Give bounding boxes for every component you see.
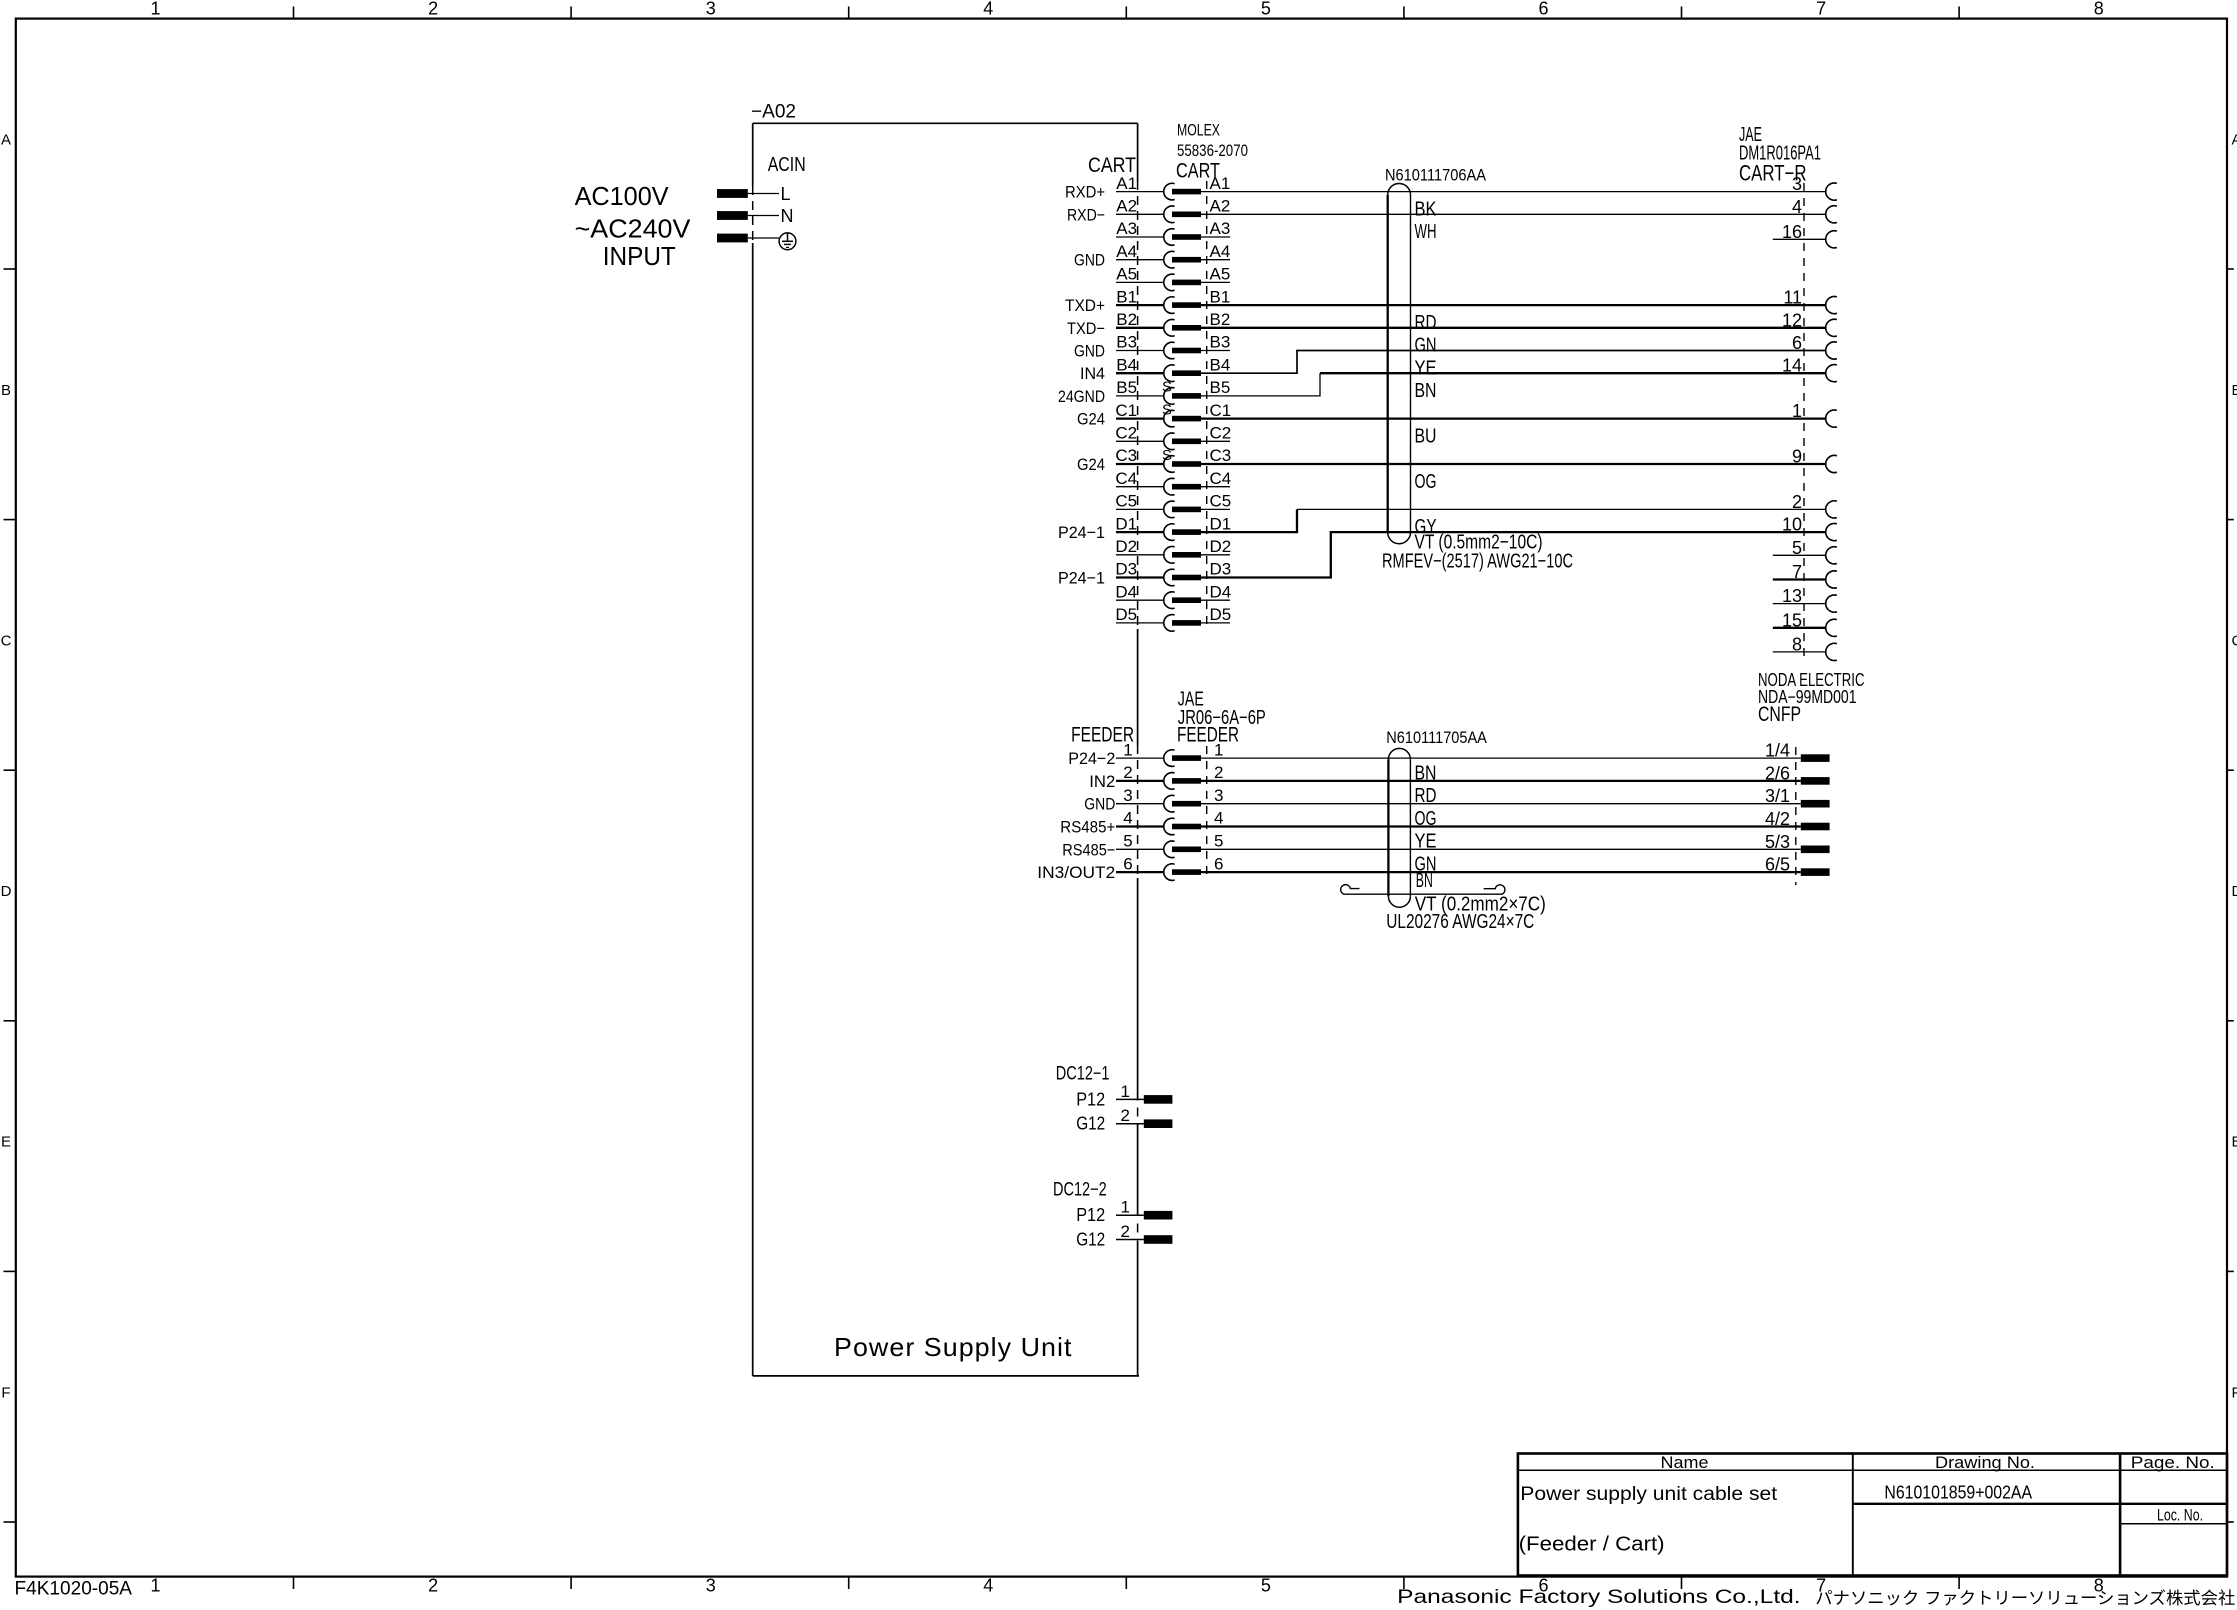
svg-text:4/2: 4/2 bbox=[1765, 809, 1790, 829]
svg-text:1: 1 bbox=[1123, 740, 1132, 759]
svg-text:2: 2 bbox=[1123, 763, 1132, 782]
CART-R pin 7 bbox=[1773, 562, 1837, 588]
wire FEEDER 6 to CNFP bbox=[1201, 871, 1801, 873]
CART pin B3 terminal bbox=[1116, 333, 1230, 359]
CART pin A5 terminal bbox=[1116, 265, 1230, 291]
power supply unit box -A02 bbox=[753, 123, 1139, 1376]
CART pin C4 terminal bbox=[1115, 469, 1231, 495]
svg-text:C1: C1 bbox=[1210, 401, 1232, 420]
svg-text:F: F bbox=[2232, 1384, 2237, 1401]
svg-text:CNFP: CNFP bbox=[1758, 703, 1801, 726]
svg-text:B2: B2 bbox=[1210, 310, 1231, 329]
svg-text:RXD+: RXD+ bbox=[1065, 183, 1105, 202]
wire FEEDER 4 to CNFP bbox=[1201, 825, 1801, 827]
wire stub CART pin C2 bbox=[1201, 440, 1230, 442]
svg-text:6/5: 6/5 bbox=[1765, 855, 1790, 875]
svg-text:A: A bbox=[1, 131, 11, 148]
wire stub CART pin B3 bbox=[1201, 350, 1230, 352]
svg-text:IN3/OUT2: IN3/OUT2 bbox=[1037, 863, 1115, 882]
svg-text:D: D bbox=[2232, 883, 2237, 900]
svg-text:1: 1 bbox=[150, 0, 160, 19]
CART-R pin 4 bbox=[1792, 197, 1837, 223]
svg-text:S: S bbox=[1162, 447, 1172, 464]
wire stub CART pin A4 bbox=[1201, 259, 1230, 261]
svg-text:5: 5 bbox=[1123, 832, 1132, 851]
connector DC12−2 bbox=[1053, 1180, 1107, 1201]
connector CNFP (NODA ELECTRIC NDA-99MD001) header bbox=[1758, 670, 1865, 726]
wire FEEDER 3 to CNFP bbox=[1201, 803, 1801, 805]
CART-R pin 14 bbox=[1782, 356, 1837, 382]
svg-text:2: 2 bbox=[428, 0, 438, 19]
svg-text:G24: G24 bbox=[1077, 455, 1105, 474]
svg-text:G12: G12 bbox=[1076, 1230, 1105, 1250]
svg-text:D5: D5 bbox=[1115, 605, 1137, 624]
svg-text:2: 2 bbox=[1121, 1106, 1130, 1125]
svg-text:TXD−: TXD− bbox=[1067, 319, 1105, 338]
svg-text:UL20276 AWG24×7C: UL20276 AWG24×7C bbox=[1386, 911, 1534, 933]
svg-text:A2: A2 bbox=[1210, 197, 1231, 216]
svg-text:C3: C3 bbox=[1115, 446, 1137, 465]
svg-text:−A02: −A02 bbox=[751, 102, 796, 123]
svg-text:OG: OG bbox=[1415, 471, 1437, 493]
svg-text:C1: C1 bbox=[1115, 401, 1137, 420]
svg-text:RD: RD bbox=[1415, 312, 1437, 334]
svg-text:11: 11 bbox=[1783, 288, 1802, 308]
svg-text:~AC240V: ~AC240V bbox=[575, 213, 691, 243]
svg-text:RXD−: RXD− bbox=[1067, 205, 1105, 224]
CART pin C1 terminal bbox=[1115, 401, 1231, 427]
svg-text:BN: BN bbox=[1415, 762, 1437, 784]
CART pin D3 terminal bbox=[1115, 560, 1231, 586]
wire C1 to CART-R pin 1 (BU) bbox=[1201, 417, 1826, 419]
FEEDER pin 4 terminal bbox=[1116, 809, 1223, 835]
svg-text:1: 1 bbox=[1792, 401, 1802, 421]
CART pin A2 terminal bbox=[1116, 197, 1230, 223]
svg-text:IN2: IN2 bbox=[1089, 772, 1115, 791]
CART pin B2 terminal bbox=[1116, 310, 1230, 336]
CART pin D1 terminal bbox=[1115, 514, 1231, 540]
svg-text:IN4: IN4 bbox=[1080, 364, 1105, 383]
FEEDER pin 3 terminal bbox=[1116, 786, 1223, 812]
AC input label AC100V ~AC240V INPUT bbox=[575, 181, 691, 271]
svg-text:14: 14 bbox=[1782, 356, 1802, 376]
wire FEEDER 2 to CNFP bbox=[1201, 780, 1801, 782]
svg-text:D5: D5 bbox=[1210, 605, 1232, 624]
svg-text:YE: YE bbox=[1415, 357, 1437, 379]
svg-text:2: 2 bbox=[1121, 1222, 1130, 1241]
FEEDER pin 5 terminal bbox=[1116, 832, 1223, 858]
svg-text:A5: A5 bbox=[1116, 265, 1137, 284]
svg-text:1: 1 bbox=[150, 1576, 160, 1596]
wire D1 to CART-R pin 2 (GY), steps up at x=1297 bbox=[1201, 509, 1297, 532]
svg-text:A5: A5 bbox=[1210, 265, 1231, 284]
svg-text:12: 12 bbox=[1782, 310, 1802, 330]
svg-text:D3: D3 bbox=[1210, 560, 1232, 579]
svg-text:6: 6 bbox=[1123, 854, 1132, 873]
svg-text:16: 16 bbox=[1782, 222, 1802, 242]
connector CART-R (JAE DM1R016PA1) header bbox=[1739, 124, 1821, 186]
wire stub CART pin A5 bbox=[1201, 281, 1230, 283]
svg-text:B3: B3 bbox=[1116, 333, 1137, 352]
svg-text:GN: GN bbox=[1415, 335, 1437, 357]
svg-text:9: 9 bbox=[1792, 447, 1802, 467]
FEEDER pin 1 terminal bbox=[1116, 740, 1223, 766]
CART pin D2 terminal bbox=[1115, 537, 1231, 563]
connector FEEDER (JAE JR06-6A-6P) header bbox=[1177, 689, 1266, 747]
CART pin C3 terminal bbox=[1115, 446, 1231, 472]
svg-text:10: 10 bbox=[1782, 515, 1802, 535]
CART-R pin 1 bbox=[1792, 401, 1837, 427]
svg-text:N610111705AA: N610111705AA bbox=[1386, 728, 1487, 747]
svg-text:DC12−1: DC12−1 bbox=[1056, 1063, 1110, 1084]
svg-text:B: B bbox=[2232, 382, 2237, 399]
svg-text:F4K1020-05A: F4K1020-05A bbox=[15, 1579, 133, 1600]
svg-text:GND: GND bbox=[1084, 795, 1115, 814]
svg-text:D1: D1 bbox=[1210, 514, 1232, 533]
svg-text:F: F bbox=[1, 1384, 10, 1401]
CART pin A3 terminal bbox=[1116, 219, 1230, 245]
svg-text:(Feeder / Cart): (Feeder / Cart) bbox=[1519, 1534, 1665, 1556]
svg-text:C4: C4 bbox=[1210, 469, 1232, 488]
CNFP pin 1/4 bbox=[1765, 741, 1830, 762]
svg-text:Panasonic Factory Solutions Co: Panasonic Factory Solutions Co.,Ltd. bbox=[1397, 1586, 1800, 1608]
unused 7th core with curled ends bbox=[1341, 885, 1505, 895]
CART pin D5 terminal bbox=[1115, 605, 1231, 631]
svg-text:Page. No.: Page. No. bbox=[2131, 1453, 2215, 1472]
svg-text:6: 6 bbox=[1214, 854, 1223, 873]
CNFP pin 4/2 bbox=[1765, 809, 1830, 830]
svg-text:C3: C3 bbox=[1210, 446, 1232, 465]
svg-text:4: 4 bbox=[983, 1576, 993, 1596]
svg-text:RD: RD bbox=[1415, 785, 1437, 807]
ACIN terminal L bbox=[717, 184, 791, 204]
svg-text:D: D bbox=[1, 883, 12, 900]
svg-text:B3: B3 bbox=[1210, 333, 1231, 352]
svg-text:E: E bbox=[2232, 1134, 2237, 1151]
svg-text:Name: Name bbox=[1661, 1453, 1709, 1472]
wire B5 to CART-R pin 14 (BN), steps up at x=1320 bbox=[1201, 373, 1320, 396]
DC12−2 pin 1 (P12) bbox=[1076, 1198, 1172, 1226]
cable sheath oval (CART cable) bbox=[1388, 183, 1411, 543]
FEEDER pin 2 terminal bbox=[1116, 763, 1223, 789]
CNFP pin 5/3 bbox=[1765, 832, 1830, 853]
svg-text:8: 8 bbox=[1792, 634, 1802, 654]
svg-text:P24−1: P24−1 bbox=[1058, 569, 1105, 588]
svg-text:C: C bbox=[1, 633, 12, 650]
svg-text:A: A bbox=[2232, 131, 2237, 148]
svg-text:B5: B5 bbox=[1116, 378, 1137, 397]
svg-text:G24: G24 bbox=[1077, 410, 1105, 429]
FEEDER pin 6 terminal bbox=[1116, 854, 1223, 880]
wire stub CART pin D4 bbox=[1201, 599, 1230, 601]
svg-text:15: 15 bbox=[1782, 610, 1802, 630]
wire A1 to CART-R pin 3 (BK) bbox=[1201, 191, 1826, 193]
svg-text:A1: A1 bbox=[1210, 174, 1231, 193]
svg-text:A3: A3 bbox=[1210, 219, 1231, 238]
CART pin B1 terminal bbox=[1116, 287, 1230, 313]
svg-text:RS485+: RS485+ bbox=[1060, 818, 1115, 837]
wire stub CART pin C5 bbox=[1201, 508, 1230, 510]
CART-R pin 2 bbox=[1792, 492, 1837, 518]
svg-text:13: 13 bbox=[1782, 586, 1802, 606]
svg-text:パナソニック ファクトリーソリューションズ株式会社: パナソニック ファクトリーソリューションズ株式会社 bbox=[1815, 1589, 2235, 1608]
svg-text:4: 4 bbox=[983, 0, 993, 19]
svg-text:6: 6 bbox=[1792, 333, 1802, 353]
wire B4 to CART-R pin 6 (YE), steps up at x=1297 bbox=[1201, 351, 1826, 374]
CART pin B5 terminal bbox=[1116, 378, 1230, 404]
svg-text:OG: OG bbox=[1415, 808, 1437, 830]
svg-text:2: 2 bbox=[428, 1576, 438, 1596]
wire B2 to CART-R pin 12 (GN) bbox=[1201, 327, 1826, 329]
svg-text:B2: B2 bbox=[1116, 310, 1137, 329]
CNFP pin 6/5 bbox=[1765, 855, 1830, 876]
svg-text:A3: A3 bbox=[1116, 219, 1137, 238]
svg-text:1: 1 bbox=[1121, 1198, 1130, 1217]
svg-text:P24−2: P24−2 bbox=[1068, 749, 1115, 768]
title block bbox=[1518, 1454, 2227, 1576]
svg-text:4: 4 bbox=[1214, 809, 1223, 828]
wire A2 to CART-R pin 4 (WH) bbox=[1201, 213, 1826, 215]
DC12−1 pin 1 (P12) bbox=[1076, 1082, 1172, 1110]
DC12−2 pin 2 (G12) bbox=[1076, 1222, 1172, 1250]
svg-text:1/4: 1/4 bbox=[1765, 741, 1790, 761]
svg-text:B1: B1 bbox=[1210, 287, 1231, 306]
CART-R pin 11 bbox=[1783, 288, 1837, 314]
wire FEEDER 5 to CNFP bbox=[1201, 848, 1801, 850]
svg-text:D4: D4 bbox=[1115, 582, 1137, 601]
svg-text:D2: D2 bbox=[1115, 537, 1137, 556]
svg-text:4: 4 bbox=[1792, 197, 1802, 217]
svg-text:Power Supply Unit: Power Supply Unit bbox=[834, 1332, 1073, 1362]
CART-R pin 13 bbox=[1773, 586, 1837, 612]
wire B1 to CART-R pin 11 (RD) bbox=[1201, 304, 1826, 306]
CART-R pin 8 bbox=[1773, 634, 1837, 660]
svg-text:GND: GND bbox=[1074, 251, 1105, 270]
svg-text:BN: BN bbox=[1416, 870, 1433, 892]
svg-text:N610111706AA: N610111706AA bbox=[1385, 166, 1487, 185]
svg-text:C5: C5 bbox=[1210, 492, 1232, 511]
connector FEEDER housing dashed line bbox=[1206, 746, 1208, 877]
ACIN terminal PE with protective earth symbol bbox=[717, 233, 796, 250]
CART-R pin 15 bbox=[1773, 610, 1837, 636]
svg-text:GND: GND bbox=[1074, 342, 1105, 361]
wire stub CART pin D2 bbox=[1201, 554, 1230, 556]
CART pin C2 terminal bbox=[1115, 424, 1231, 450]
svg-text:DC12−2: DC12−2 bbox=[1053, 1180, 1107, 1201]
svg-text:YE: YE bbox=[1415, 831, 1437, 853]
CART-R pin 9 bbox=[1792, 447, 1837, 473]
svg-text:S: S bbox=[1162, 401, 1172, 418]
CNFP pin 3/1 bbox=[1765, 786, 1830, 807]
svg-text:5: 5 bbox=[1261, 0, 1271, 19]
svg-text:C4: C4 bbox=[1115, 469, 1137, 488]
svg-text:B4: B4 bbox=[1210, 355, 1231, 374]
svg-text:5/3: 5/3 bbox=[1765, 832, 1790, 852]
svg-text:3: 3 bbox=[1792, 174, 1802, 194]
svg-text:D3: D3 bbox=[1115, 560, 1137, 579]
svg-text:2: 2 bbox=[1792, 492, 1802, 512]
svg-text:4: 4 bbox=[1123, 809, 1132, 828]
svg-text:A1: A1 bbox=[1116, 174, 1137, 193]
svg-text:A4: A4 bbox=[1116, 242, 1137, 261]
svg-text:B: B bbox=[1, 382, 11, 399]
connector CART-R housing dashed line bbox=[1803, 183, 1805, 660]
wire stub CART pin C4 bbox=[1201, 486, 1230, 488]
CART-R pin 10 bbox=[1782, 515, 1837, 541]
CART-R pin 16 bbox=[1773, 222, 1837, 248]
svg-text:TXD+: TXD+ bbox=[1065, 296, 1105, 315]
CART pin A4 terminal bbox=[1116, 242, 1230, 268]
svg-text:3: 3 bbox=[1214, 786, 1223, 805]
svg-text:1: 1 bbox=[1214, 740, 1223, 759]
CART pin D4 terminal bbox=[1115, 582, 1231, 608]
svg-text:3/1: 3/1 bbox=[1765, 786, 1790, 806]
svg-text:Loc. No.: Loc. No. bbox=[2157, 1505, 2203, 1524]
svg-text:P12: P12 bbox=[1076, 1089, 1105, 1109]
svg-text:55836-2070: 55836-2070 bbox=[1177, 141, 1248, 160]
svg-text:2/6: 2/6 bbox=[1765, 763, 1790, 783]
svg-text:P12: P12 bbox=[1076, 1205, 1105, 1225]
svg-text:S: S bbox=[1162, 379, 1172, 396]
CART pin B4 terminal bbox=[1116, 355, 1230, 381]
svg-text:BK: BK bbox=[1415, 198, 1438, 220]
svg-text:L: L bbox=[781, 184, 791, 204]
svg-text:3: 3 bbox=[706, 1576, 716, 1596]
CART pin C5 terminal bbox=[1115, 492, 1231, 518]
CNFP pin 2/6 bbox=[1765, 763, 1830, 784]
svg-text:5: 5 bbox=[1261, 1576, 1271, 1596]
svg-text:D4: D4 bbox=[1210, 582, 1232, 601]
svg-text:B5: B5 bbox=[1210, 378, 1231, 397]
svg-text:N610101859+002AA: N610101859+002AA bbox=[1884, 1482, 2032, 1502]
wire FEEDER 1 to CNFP bbox=[1201, 757, 1801, 759]
wire C3 to CART-R pin 9 (OG) bbox=[1201, 463, 1826, 465]
svg-text:B4: B4 bbox=[1116, 355, 1137, 374]
svg-text:A4: A4 bbox=[1210, 242, 1231, 261]
svg-text:RS485−: RS485− bbox=[1062, 840, 1115, 859]
DC12−1 pin 2 (G12) bbox=[1076, 1106, 1172, 1134]
CART pin A1 terminal bbox=[1116, 174, 1230, 200]
CART-R pin 12 bbox=[1782, 310, 1837, 336]
connector DC12−1 bbox=[1056, 1063, 1110, 1084]
svg-text:WH: WH bbox=[1415, 221, 1437, 243]
svg-text:C: C bbox=[2232, 633, 2237, 650]
svg-text:2: 2 bbox=[1214, 763, 1223, 782]
wire stub CART pin D5 bbox=[1201, 622, 1230, 624]
svg-text:D2: D2 bbox=[1210, 537, 1232, 556]
svg-text:C2: C2 bbox=[1115, 424, 1137, 443]
connector CART (Molex 55836-2070) header bbox=[1176, 121, 1248, 183]
wire D3 to CART-R pin 10 (VT), steps up at x=1330.8 bbox=[1201, 532, 1826, 577]
svg-text:P24−1: P24−1 bbox=[1058, 523, 1105, 542]
svg-text:G12: G12 bbox=[1076, 1114, 1105, 1134]
svg-text:D1: D1 bbox=[1115, 514, 1137, 533]
svg-text:3: 3 bbox=[706, 0, 716, 19]
svg-text:7: 7 bbox=[1792, 562, 1802, 582]
svg-text:INPUT: INPUT bbox=[603, 241, 676, 271]
svg-text:1: 1 bbox=[1121, 1082, 1130, 1101]
connector CNFP housing dashed line bbox=[1795, 747, 1797, 885]
CART-R pin 5 bbox=[1773, 538, 1837, 564]
svg-text:N: N bbox=[781, 206, 794, 226]
cable sheath oval (FEEDER cable) bbox=[1388, 748, 1410, 907]
svg-text:AC100V: AC100V bbox=[575, 181, 670, 211]
svg-text:E: E bbox=[1, 1134, 11, 1151]
svg-text:Drawing No.: Drawing No. bbox=[1935, 1453, 2035, 1472]
svg-text:BN: BN bbox=[1415, 380, 1437, 402]
svg-text:ACIN: ACIN bbox=[768, 154, 806, 176]
svg-text:5: 5 bbox=[1792, 538, 1802, 558]
svg-text:24GND: 24GND bbox=[1058, 387, 1105, 406]
svg-text:6: 6 bbox=[1538, 0, 1548, 19]
connector CART housing dashed line bbox=[1206, 181, 1208, 628]
svg-text:B1: B1 bbox=[1116, 287, 1137, 306]
svg-text:5: 5 bbox=[1214, 832, 1223, 851]
svg-text:C2: C2 bbox=[1210, 424, 1232, 443]
svg-text:7: 7 bbox=[1816, 0, 1826, 19]
svg-text:MOLEX: MOLEX bbox=[1177, 121, 1220, 140]
svg-text:C5: C5 bbox=[1115, 492, 1137, 511]
svg-text:A2: A2 bbox=[1116, 197, 1137, 216]
svg-text:RMFEV−(2517) AWG21−10C: RMFEV−(2517) AWG21−10C bbox=[1382, 551, 1573, 573]
svg-text:FEEDER: FEEDER bbox=[1177, 724, 1239, 747]
ACIN terminal N bbox=[717, 206, 794, 226]
svg-text:BU: BU bbox=[1415, 425, 1437, 447]
svg-text:3: 3 bbox=[1123, 786, 1132, 805]
CART-R pin 6 bbox=[1792, 333, 1837, 359]
svg-text:8: 8 bbox=[2094, 0, 2104, 19]
svg-text:Power supply unit cable set: Power supply unit cable set bbox=[1520, 1484, 1778, 1505]
wire stub CART pin A3 bbox=[1201, 236, 1230, 238]
CART-R pin 3 bbox=[1792, 174, 1837, 200]
